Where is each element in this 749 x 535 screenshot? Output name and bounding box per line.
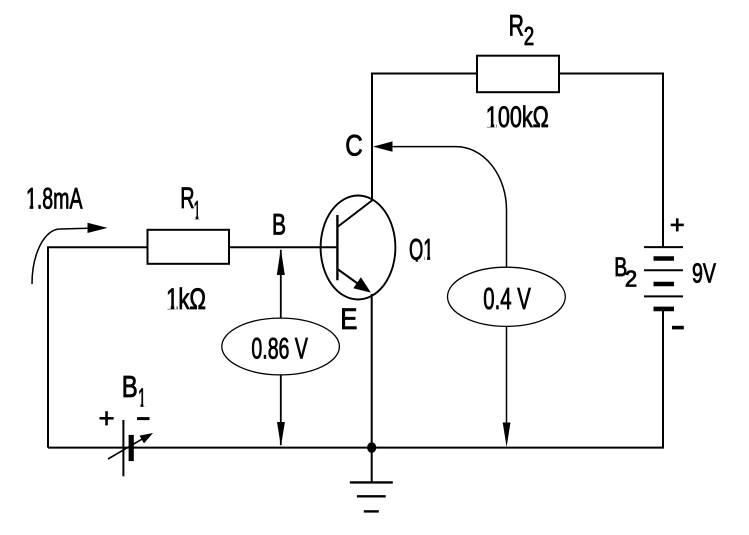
svg-text:E: E <box>340 303 357 336</box>
svg-text:2: 2 <box>625 265 637 291</box>
svg-text:0.86 V: 0.86 V <box>251 332 308 365</box>
svg-text:R: R <box>180 182 194 215</box>
wire base left segment <box>47 246 148 248</box>
voltmeter 0.86 V dimension line <box>277 249 285 447</box>
svg-text:9V: 9V <box>692 258 716 289</box>
battery B2 <box>644 247 683 309</box>
svg-text:C: C <box>345 130 363 163</box>
svg-text:1: 1 <box>194 195 201 225</box>
wire top left segment <box>371 73 477 75</box>
svg-text:2: 2 <box>524 21 535 51</box>
resistor R1 <box>148 230 230 264</box>
svg-text:100kΩ: 100kΩ <box>486 101 549 134</box>
wire collector vertical <box>371 74 373 202</box>
wire left vertical <box>47 247 49 447</box>
resistor R2 <box>477 56 559 92</box>
transistor Q1 <box>321 196 396 300</box>
svg-text:1.8mA: 1.8mA <box>26 183 83 216</box>
svg-text:0.4 V: 0.4 V <box>483 281 531 316</box>
svg-text:1: 1 <box>138 383 146 413</box>
svg-text:Q1: Q1 <box>409 234 434 267</box>
svg-text:B: B <box>272 209 286 242</box>
wire right vertical upper <box>662 73 664 248</box>
wire base right segment <box>229 246 337 248</box>
wire bottom <box>48 447 664 449</box>
svg-text:1kΩ: 1kΩ <box>166 283 206 316</box>
wire emitter vertical <box>371 294 373 448</box>
svg-text:R: R <box>509 9 524 42</box>
junction node <box>367 442 376 453</box>
glyph cleanup patches <box>27 123 497 407</box>
svg-text:B: B <box>122 369 138 404</box>
ground <box>350 448 393 512</box>
voltmeter 0.86 V ellipse <box>222 318 340 375</box>
voltmeter 0.4 V ellipse <box>448 267 566 326</box>
battery B1 minus sign <box>137 417 150 420</box>
battery B2 plus sign <box>671 218 684 231</box>
wire right vertical lower <box>662 309 664 448</box>
current arrow 1.8mA <box>32 223 108 284</box>
battery B1 plus sign <box>100 411 114 425</box>
battery B1 <box>108 420 153 476</box>
battery B2 minus sign <box>672 326 684 330</box>
wire top right segment <box>559 73 663 75</box>
collector feedback arrow <box>373 141 511 447</box>
